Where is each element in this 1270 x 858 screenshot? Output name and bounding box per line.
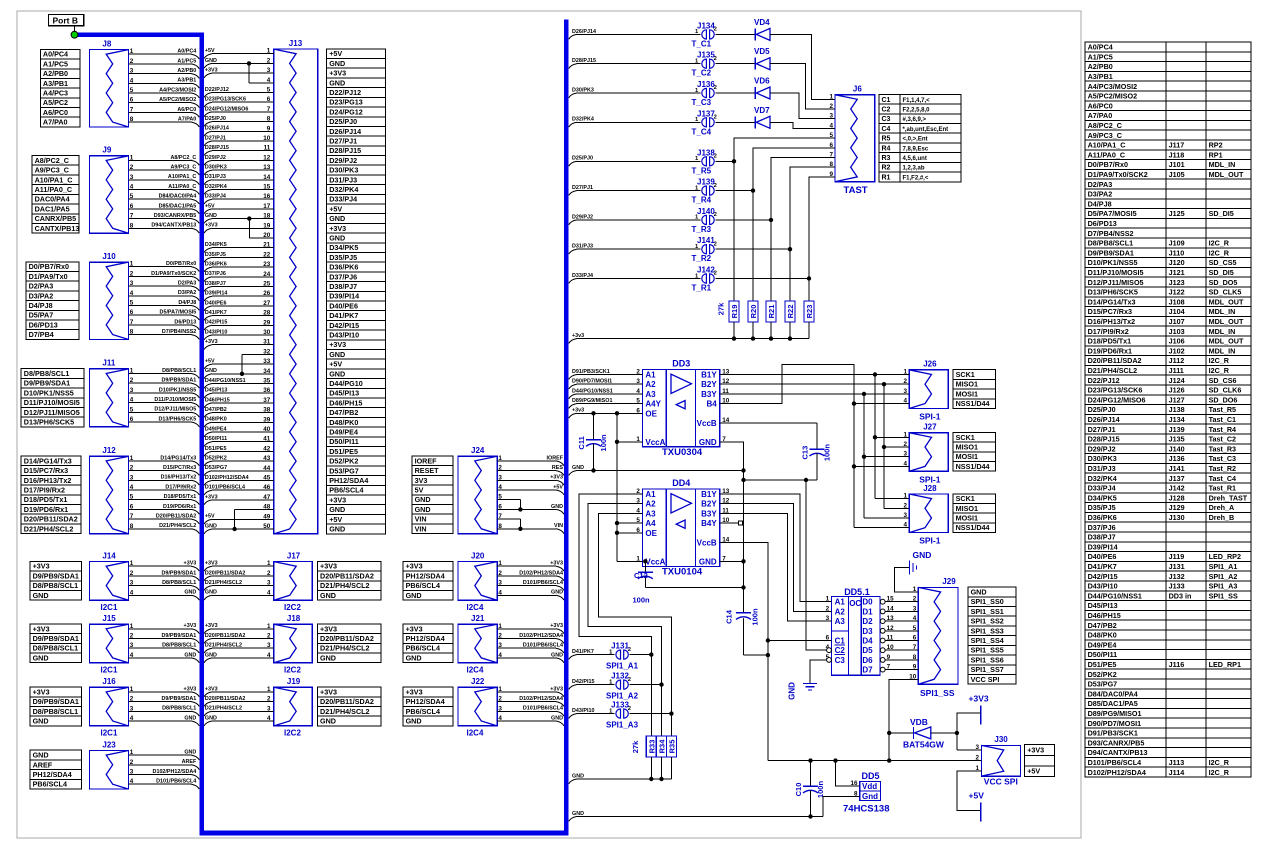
svg-text:D37/PJ6: D37/PJ6 <box>205 271 226 277</box>
svg-text:J126: J126 <box>1169 386 1185 395</box>
svg-text:MISO1: MISO1 <box>956 443 978 452</box>
svg-text:3: 3 <box>130 280 134 287</box>
svg-text:J124: J124 <box>1169 376 1185 385</box>
svg-text:D9/PB9/SDA1: D9/PB9/SDA1 <box>162 570 197 576</box>
svg-text:+3V3: +3V3 <box>550 623 563 629</box>
svg-text:J138: J138 <box>1169 405 1185 414</box>
svg-text:D29/PJ2: D29/PJ2 <box>572 214 593 220</box>
svg-text:8: 8 <box>130 523 134 530</box>
svg-text:J141: J141 <box>1169 464 1185 473</box>
svg-text:SPI1_A1: SPI1_A1 <box>606 662 639 671</box>
svg-text:+3V3: +3V3 <box>205 561 218 567</box>
svg-text:4: 4 <box>498 715 502 722</box>
svg-text:<,0,>,Ent: <,0,>,Ent <box>903 137 928 143</box>
svg-text:D36/PK6: D36/PK6 <box>205 262 227 268</box>
svg-text:7: 7 <box>130 213 134 220</box>
svg-text:2: 2 <box>130 633 134 640</box>
svg-text:J135: J135 <box>1169 435 1185 444</box>
svg-text:2: 2 <box>498 465 502 472</box>
svg-text:D5/PA7/MOSI5: D5/PA7/MOSI5 <box>160 310 197 316</box>
svg-text:J119: J119 <box>1169 552 1185 561</box>
svg-text:4: 4 <box>130 77 134 84</box>
svg-text:J18: J18 <box>287 614 301 623</box>
svg-text:#,3,6,9,>: #,3,6,9,> <box>903 117 927 123</box>
svg-text:DAC1/PA5: DAC1/PA5 <box>35 204 70 213</box>
svg-text:D52/PK2: D52/PK2 <box>205 456 227 462</box>
svg-text:SCK1: SCK1 <box>956 433 975 442</box>
svg-text:+5V: +5V <box>969 791 985 801</box>
svg-text:11: 11 <box>264 145 271 152</box>
svg-text:3: 3 <box>130 174 134 181</box>
svg-text:T_R3: T_R3 <box>692 225 712 234</box>
svg-text:Dreh_TAST: Dreh_TAST <box>1209 493 1248 502</box>
svg-text:A9/PC3_C: A9/PC3_C <box>35 166 69 175</box>
svg-text:SPI-1: SPI-1 <box>919 536 941 546</box>
svg-text:D26/PJ14: D26/PJ14 <box>205 126 229 132</box>
svg-text:D53/PG7: D53/PG7 <box>205 465 227 471</box>
svg-text:R3: R3 <box>882 155 891 162</box>
svg-text:D6/PD13: D6/PD13 <box>174 319 196 325</box>
svg-text:4: 4 <box>130 652 134 659</box>
svg-text:J29: J29 <box>942 577 956 586</box>
svg-text:1: 1 <box>130 560 134 567</box>
svg-text:100n: 100n <box>751 608 760 626</box>
svg-text:C3: C3 <box>882 116 891 123</box>
svg-text:R2: R2 <box>882 165 891 172</box>
svg-text:A3: A3 <box>645 390 656 399</box>
svg-text:J136: J136 <box>1169 454 1185 463</box>
svg-text:1: 1 <box>267 623 271 630</box>
svg-text:3: 3 <box>498 474 502 481</box>
svg-text:D33/PJ4: D33/PJ4 <box>1088 484 1116 493</box>
svg-text:T_C4: T_C4 <box>692 127 712 136</box>
svg-text:7: 7 <box>130 513 134 520</box>
svg-text:J8: J8 <box>102 39 111 48</box>
svg-text:17: 17 <box>263 203 271 210</box>
svg-text:D40/PE6: D40/PE6 <box>205 300 227 306</box>
svg-text:1: 1 <box>130 686 134 693</box>
svg-text:J13: J13 <box>289 39 303 48</box>
svg-text:D41/PK7: D41/PK7 <box>205 310 227 316</box>
svg-text:J129: J129 <box>1169 503 1185 512</box>
svg-text:D49/PE4: D49/PE4 <box>329 428 358 437</box>
svg-text:Tast_R3: Tast_R3 <box>1209 444 1236 453</box>
svg-text:J132: J132 <box>1169 572 1185 581</box>
svg-text:D26/PJ14: D26/PJ14 <box>329 127 361 136</box>
svg-text:D32/PK4: D32/PK4 <box>329 185 358 194</box>
svg-text:42: 42 <box>263 445 271 452</box>
svg-text:I2C_R: I2C_R <box>1209 768 1230 777</box>
svg-text:VDB: VDB <box>910 717 928 727</box>
svg-text:*,ab,unt,Esc,Ent: *,ab,unt,Esc,Ent <box>903 127 949 133</box>
svg-text:J107: J107 <box>1169 317 1185 326</box>
svg-text:D46/PH15: D46/PH15 <box>1088 611 1121 620</box>
svg-text:2: 2 <box>267 570 271 577</box>
svg-text:J23: J23 <box>102 740 116 749</box>
svg-text:C2: C2 <box>882 107 891 114</box>
svg-text:VD6: VD6 <box>754 77 770 86</box>
svg-text:D23/PG13/SCK6: D23/PG13/SCK6 <box>1088 386 1143 395</box>
svg-text:D4/PJ8: D4/PJ8 <box>29 301 53 310</box>
svg-text:J20: J20 <box>471 551 485 560</box>
svg-text:D24/PG12/MISO6: D24/PG12/MISO6 <box>1088 395 1146 404</box>
svg-text:J131: J131 <box>611 642 629 651</box>
svg-text:2: 2 <box>130 570 134 577</box>
svg-text:A6/PC0: A6/PC0 <box>177 107 196 113</box>
svg-text:100n: 100n <box>823 444 832 462</box>
svg-text:4: 4 <box>267 715 271 722</box>
svg-text:D9/PB9/SDA1: D9/PB9/SDA1 <box>33 571 79 580</box>
svg-text:D8/PB8/SCL1: D8/PB8/SCL1 <box>162 368 196 374</box>
svg-text:D5: D5 <box>862 646 873 655</box>
svg-text:D31/PJ3: D31/PJ3 <box>1088 464 1116 473</box>
svg-text:A5/PC2/MISO2: A5/PC2/MISO2 <box>1088 92 1138 101</box>
svg-text:D8/PB8/SCL1: D8/PB8/SCL1 <box>33 707 79 716</box>
svg-text:NSS1/D44: NSS1/D44 <box>956 399 990 408</box>
svg-text:A3/PB1: A3/PB1 <box>177 78 196 84</box>
svg-text:D11/PJ10/MOSI5: D11/PJ10/MOSI5 <box>1088 268 1144 277</box>
svg-text:SPI1_SS5: SPI1_SS5 <box>971 646 1004 655</box>
svg-text:J127: J127 <box>1169 395 1185 404</box>
svg-text:5: 5 <box>130 406 134 413</box>
svg-text:I2C_R: I2C_R <box>1209 239 1230 248</box>
svg-text:1: 1 <box>498 560 502 567</box>
svg-text:PH12/SDA4: PH12/SDA4 <box>33 770 72 779</box>
svg-text:+3V3: +3V3 <box>406 624 423 633</box>
svg-text:T_C3: T_C3 <box>692 98 712 107</box>
svg-text:GND: GND <box>329 525 345 534</box>
svg-text:D84/DAC0/PA4: D84/DAC0/PA4 <box>1088 689 1138 698</box>
svg-text:SPI1_SS: SPI1_SS <box>1209 591 1238 600</box>
svg-text:D8/PB8/SCL1: D8/PB8/SCL1 <box>24 369 70 378</box>
svg-text:+5V: +5V <box>329 360 342 369</box>
svg-text:I2C4: I2C4 <box>467 666 484 675</box>
svg-text:5: 5 <box>130 193 134 200</box>
svg-text:D9/PB9/SDA1: D9/PB9/SDA1 <box>33 697 79 706</box>
svg-text:D8/PB8/SCL1: D8/PB8/SCL1 <box>162 643 196 649</box>
svg-text:D29/PJ2: D29/PJ2 <box>205 155 226 161</box>
svg-text:J134: J134 <box>697 21 715 30</box>
svg-text:D22/PJ12: D22/PJ12 <box>329 88 361 97</box>
svg-text:D28/PJ15: D28/PJ15 <box>1088 435 1120 444</box>
svg-text:GND: GND <box>320 591 336 600</box>
svg-text:GND: GND <box>572 811 584 817</box>
svg-text:+3V3: +3V3 <box>329 69 346 78</box>
svg-text:T_R4: T_R4 <box>692 196 712 205</box>
svg-text:+3V3: +3V3 <box>406 562 423 571</box>
svg-text:A11/PA0_C: A11/PA0_C <box>168 184 196 190</box>
svg-text:GND: GND <box>551 590 563 596</box>
svg-text:27k: 27k <box>631 740 640 753</box>
svg-text:A7/PA0: A7/PA0 <box>1088 111 1113 120</box>
svg-text:D9/PB9/SDA1: D9/PB9/SDA1 <box>162 696 197 702</box>
svg-text:D12/PJ11/MISO5: D12/PJ11/MISO5 <box>1088 278 1144 287</box>
svg-text:J128: J128 <box>1169 493 1185 502</box>
svg-text:C14: C14 <box>725 609 734 624</box>
svg-text:D47/PB2: D47/PB2 <box>329 408 358 417</box>
svg-text:VCC SPI: VCC SPI <box>984 777 1018 787</box>
svg-text:6: 6 <box>267 96 271 103</box>
svg-text:+3V3: +3V3 <box>329 224 346 233</box>
svg-text:B3Y: B3Y <box>701 509 717 518</box>
svg-text:+3V3: +3V3 <box>406 687 423 696</box>
svg-text:4,5,6,unt: 4,5,6,unt <box>903 156 927 162</box>
svg-text:D7/PB4/NSS2: D7/PB4/NSS2 <box>162 329 196 335</box>
svg-text:D89/PG9/MISO1: D89/PG9/MISO1 <box>1088 709 1142 718</box>
svg-text:I2C1: I2C1 <box>101 666 118 675</box>
svg-text:3: 3 <box>267 67 271 74</box>
svg-text:GND: GND <box>913 550 932 560</box>
svg-text:D30/PK3: D30/PK3 <box>329 166 358 175</box>
svg-text:D36/PK6: D36/PK6 <box>329 263 358 272</box>
svg-text:D42/PI15: D42/PI15 <box>329 321 359 330</box>
svg-text:D90/PD7/MOSI1: D90/PD7/MOSI1 <box>1088 719 1142 728</box>
svg-text:D94/CANTX/PB13: D94/CANTX/PB13 <box>151 223 196 229</box>
svg-text:SD_DI5: SD_DI5 <box>1209 209 1234 218</box>
svg-text:+3V3: +3V3 <box>329 340 346 349</box>
svg-text:D8/PB8/SCL1: D8/PB8/SCL1 <box>33 644 79 653</box>
svg-text:DD3 in: DD3 in <box>1169 591 1192 600</box>
svg-text:7: 7 <box>267 106 271 113</box>
svg-text:D13/PH6/SCK5: D13/PH6/SCK5 <box>24 418 74 427</box>
svg-text:D18/PD5/Tx1: D18/PD5/Tx1 <box>1088 337 1132 346</box>
svg-text:D21/PH4/SCL2: D21/PH4/SCL2 <box>320 581 370 590</box>
svg-text:A1/PC5: A1/PC5 <box>43 59 68 68</box>
svg-text:A4/PC3/MOSI2: A4/PC3/MOSI2 <box>159 87 196 93</box>
svg-text:SPI1_A3: SPI1_A3 <box>1209 582 1238 591</box>
svg-text:SD_CS6: SD_CS6 <box>1209 376 1237 385</box>
svg-text:D27/PJ1: D27/PJ1 <box>205 135 226 141</box>
svg-text:J28: J28 <box>923 484 937 493</box>
svg-text:18: 18 <box>263 213 271 220</box>
svg-text:MDL_OUT: MDL_OUT <box>1209 170 1244 179</box>
svg-text:3: 3 <box>130 642 134 649</box>
svg-text:27: 27 <box>263 300 271 307</box>
svg-text:D101/PB6/SCL4: D101/PB6/SCL4 <box>156 779 196 785</box>
svg-text:D3: D3 <box>862 627 873 636</box>
svg-text:A7/PA0: A7/PA0 <box>43 118 68 127</box>
svg-text:GND: GND <box>406 653 422 662</box>
svg-text:SPI-1: SPI-1 <box>919 412 941 422</box>
svg-text:PB6/SCL4: PB6/SCL4 <box>329 486 363 495</box>
svg-text:+3V3: +3V3 <box>184 686 197 692</box>
svg-text:B2Y: B2Y <box>701 380 717 389</box>
svg-text:GND: GND <box>329 350 345 359</box>
svg-text:GND: GND <box>184 715 196 721</box>
svg-text:D31/PJ3: D31/PJ3 <box>329 175 357 184</box>
svg-text:D1: D1 <box>862 607 873 616</box>
svg-text:MDL_IN: MDL_IN <box>1209 307 1236 316</box>
svg-text:1: 1 <box>130 368 134 375</box>
svg-text:GND: GND <box>184 750 196 756</box>
svg-text:SPI1_SS6: SPI1_SS6 <box>971 655 1004 664</box>
svg-text:D8/PB8/SCL1: D8/PB8/SCL1 <box>162 580 196 586</box>
svg-text:J136: J136 <box>697 80 715 89</box>
svg-text:D39/PI14: D39/PI14 <box>1088 542 1118 551</box>
svg-text:GND: GND <box>971 588 987 597</box>
svg-text:Dreh_A: Dreh_A <box>1209 503 1235 512</box>
svg-text:D21/PH4/SCL2: D21/PH4/SCL2 <box>159 523 196 529</box>
svg-text:D45/PI13: D45/PI13 <box>329 389 359 398</box>
svg-text:Tast_R4: Tast_R4 <box>1209 425 1236 434</box>
svg-text:3: 3 <box>267 705 271 712</box>
svg-text:5: 5 <box>130 494 134 501</box>
svg-text:D2: D2 <box>862 617 873 626</box>
svg-text:R35: R35 <box>667 740 676 754</box>
svg-text:D17/PI9/Rx2: D17/PI9/Rx2 <box>1088 327 1129 336</box>
svg-text:39: 39 <box>263 416 271 423</box>
svg-text:D22/PJ12: D22/PJ12 <box>205 87 229 93</box>
svg-text:D3/PA2: D3/PA2 <box>29 291 54 300</box>
svg-text:D6/PD13: D6/PD13 <box>1088 219 1117 228</box>
svg-text:SPI1_SS3: SPI1_SS3 <box>971 626 1004 635</box>
svg-text:D10/PK1/NSS5: D10/PK1/NSS5 <box>1088 258 1138 267</box>
svg-text:2: 2 <box>267 57 271 64</box>
svg-text:D4/PJ8: D4/PJ8 <box>178 300 196 306</box>
svg-text:5: 5 <box>130 87 134 94</box>
svg-text:GND: GND <box>788 682 797 700</box>
svg-text:C1: C1 <box>882 97 891 104</box>
svg-text:D27/PJ1: D27/PJ1 <box>329 137 357 146</box>
svg-text:I2C2: I2C2 <box>284 666 301 675</box>
svg-text:100n: 100n <box>816 781 825 799</box>
svg-text:MDL_IN: MDL_IN <box>1209 327 1236 336</box>
svg-text:J138: J138 <box>697 148 715 157</box>
svg-text:MDL_OUT: MDL_OUT <box>1209 337 1244 346</box>
svg-text:I2C_R: I2C_R <box>1209 356 1230 365</box>
svg-text:49: 49 <box>263 513 271 520</box>
svg-text:D29/PJ2: D29/PJ2 <box>1088 444 1116 453</box>
svg-text:D0: D0 <box>862 598 873 607</box>
svg-text:+3V3: +3V3 <box>205 686 218 692</box>
svg-text:+3V3: +3V3 <box>329 495 346 504</box>
svg-text:VD5: VD5 <box>754 47 770 56</box>
svg-text:LED_RP2: LED_RP2 <box>1209 552 1241 561</box>
svg-text:1: 1 <box>130 48 134 55</box>
svg-text:5: 5 <box>130 300 134 307</box>
svg-text:D34/PK5: D34/PK5 <box>329 243 358 252</box>
svg-text:MOSI1: MOSI1 <box>956 514 978 523</box>
svg-text:10: 10 <box>263 135 271 142</box>
svg-text:J105: J105 <box>1169 170 1185 179</box>
svg-text:B3Y: B3Y <box>701 390 717 399</box>
svg-text:GND: GND <box>33 751 49 760</box>
svg-text:GND: GND <box>33 717 49 726</box>
svg-text:D5/PA7/MOSI5: D5/PA7/MOSI5 <box>1088 209 1137 218</box>
svg-text:D38/PJ7: D38/PJ7 <box>1088 533 1116 542</box>
svg-text:+3V3: +3V3 <box>320 562 337 571</box>
svg-text:D49/PE4: D49/PE4 <box>205 426 227 432</box>
svg-text:D20/PB11/SDA2: D20/PB11/SDA2 <box>156 514 196 520</box>
svg-text:D16/PH13/Tx2: D16/PH13/Tx2 <box>24 476 72 485</box>
svg-text:D11/PJ10/MOSI5: D11/PJ10/MOSI5 <box>154 397 196 403</box>
svg-text:J137: J137 <box>697 109 715 118</box>
svg-text:D20/PB11/SDA2: D20/PB11/SDA2 <box>1088 356 1142 365</box>
svg-text:OC: OC <box>849 599 861 608</box>
svg-text:VIN: VIN <box>415 524 427 533</box>
svg-text:IOREF: IOREF <box>415 456 438 465</box>
svg-text:J9: J9 <box>102 146 111 155</box>
svg-text:R22: R22 <box>786 305 795 319</box>
svg-text:+3V3: +3V3 <box>205 68 218 74</box>
svg-text:D9/PB9/SDA1: D9/PB9/SDA1 <box>24 379 70 388</box>
svg-text:3: 3 <box>267 642 271 649</box>
svg-text:6: 6 <box>130 416 134 423</box>
svg-text:T_R2: T_R2 <box>692 254 712 263</box>
svg-text:B2Y: B2Y <box>701 500 717 509</box>
svg-text:D33/PJ4: D33/PJ4 <box>329 195 357 204</box>
svg-text:Vdd: Vdd <box>862 782 877 791</box>
svg-text:50: 50 <box>263 523 271 530</box>
svg-text:D20/PB11/SDA2: D20/PB11/SDA2 <box>24 515 78 524</box>
svg-text:D14/PG14/Tx3: D14/PG14/Tx3 <box>160 455 196 461</box>
svg-text:D33/PJ4: D33/PJ4 <box>572 273 593 279</box>
svg-text:SD_CLK5: SD_CLK5 <box>1209 288 1242 297</box>
svg-text:D20/PB11/SDA2: D20/PB11/SDA2 <box>205 570 245 576</box>
svg-text:J135: J135 <box>697 51 715 60</box>
svg-text:D9/PB9/SDA1: D9/PB9/SDA1 <box>33 634 79 643</box>
svg-text:R5: R5 <box>882 136 891 143</box>
svg-text:Tast_C3: Tast_C3 <box>1209 454 1236 463</box>
svg-text:J112: J112 <box>1169 356 1185 365</box>
svg-text:5V: 5V <box>415 486 424 495</box>
svg-text:+3V3: +3V3 <box>33 624 50 633</box>
svg-text:J116: J116 <box>1169 660 1185 669</box>
svg-text:SPI1_A2: SPI1_A2 <box>606 692 639 701</box>
svg-text:D10/PK1/NSS5: D10/PK1/NSS5 <box>159 387 196 393</box>
svg-text:J133: J133 <box>611 701 629 710</box>
svg-text:24: 24 <box>263 271 271 278</box>
svg-text:1: 1 <box>267 560 271 567</box>
svg-text:J133: J133 <box>1169 582 1185 591</box>
svg-text:B4: B4 <box>706 400 717 409</box>
svg-text:GND: GND <box>551 652 563 658</box>
svg-text:GND: GND <box>329 59 345 68</box>
svg-text:74HCS138: 74HCS138 <box>843 804 889 815</box>
svg-text:D90/PD7/MOSI1: D90/PD7/MOSI1 <box>572 379 612 385</box>
svg-text:+5V: +5V <box>329 515 342 524</box>
svg-text:D6/PD13: D6/PD13 <box>29 320 58 329</box>
svg-text:Tast_C2: Tast_C2 <box>1209 435 1236 444</box>
svg-text:D15/PC7/Rx3: D15/PC7/Rx3 <box>163 465 196 471</box>
svg-text:100n: 100n <box>599 434 608 452</box>
svg-text:I2C1: I2C1 <box>101 729 118 738</box>
svg-text:SPI1_SS7: SPI1_SS7 <box>971 665 1004 674</box>
svg-text:1: 1 <box>130 455 134 462</box>
svg-text:T_R5: T_R5 <box>692 166 712 175</box>
svg-text:D43/PI10: D43/PI10 <box>329 331 359 340</box>
svg-text:A2: A2 <box>835 607 846 616</box>
svg-text:2: 2 <box>267 696 271 703</box>
svg-text:MDL_IN: MDL_IN <box>1209 346 1236 355</box>
svg-text:T_C1: T_C1 <box>692 39 712 48</box>
svg-text:GND: GND <box>205 652 217 658</box>
svg-text:25: 25 <box>263 281 271 288</box>
svg-text:D12/PJ11/MISO5: D12/PJ11/MISO5 <box>154 407 196 413</box>
svg-text:PH12/SDA4: PH12/SDA4 <box>406 571 445 580</box>
svg-text:Tast_C1: Tast_C1 <box>1209 415 1236 424</box>
svg-text:J131: J131 <box>1169 562 1185 571</box>
svg-text:GND: GND <box>205 590 217 596</box>
svg-text:A4/PC3: A4/PC3 <box>43 89 68 98</box>
svg-text:D1/PA9/Tx0: D1/PA9/Tx0 <box>29 272 68 281</box>
svg-text:D30/PK3: D30/PK3 <box>572 87 594 93</box>
svg-text:D91/PB3/SCK1: D91/PB3/SCK1 <box>1088 729 1138 738</box>
svg-text:D30/PK3: D30/PK3 <box>205 165 227 171</box>
svg-text:31: 31 <box>263 339 271 346</box>
svg-text:D7/PB4/NSS2: D7/PB4/NSS2 <box>1088 229 1134 238</box>
svg-text:D20/PB11/SDA2: D20/PB11/SDA2 <box>320 634 374 643</box>
